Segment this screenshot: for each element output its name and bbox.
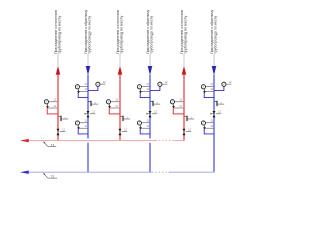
thermometer well TW21 on supply riser 2 <box>120 116 130 121</box>
return header pipe T2 dashed continuation <box>152 171 169 173</box>
supply flow arrow 3 (up) <box>182 66 187 75</box>
thermometer TI32 connection pipe <box>214 87 224 91</box>
manometer MN21 shelves <box>111 101 120 103</box>
return header arrow (left) <box>20 171 29 174</box>
supply connection note 2 <box>116 9 123 54</box>
supply header pipe T1 dashed continuation <box>156 140 175 142</box>
thermometer TI22 shelf <box>162 83 167 85</box>
manometer MN22 shelves <box>142 85 150 87</box>
valve V22 on return riser 2 <box>147 111 158 117</box>
svg-text:t1: t1 <box>190 116 192 119</box>
thermometer well TW22 on return riser 2 <box>150 101 160 106</box>
manometer MN23 shelves <box>142 122 150 124</box>
svg-text:t1: t1 <box>126 116 128 119</box>
return connection note 1 <box>84 9 91 53</box>
return header label T2 <box>44 173 58 179</box>
manometer MN32 on return riser 3 <box>201 85 206 93</box>
svg-text:t1: t1 <box>64 116 66 119</box>
manometer MN31 impulse pipe (red elbow) <box>173 108 184 114</box>
thermometer TI12 on return riser 1 <box>96 82 100 86</box>
supply header label T1 <box>44 141 57 147</box>
svg-text:трубопроводу по месту: трубопроводу по месту <box>87 15 91 53</box>
svg-text:трубопровод по месту: трубопровод по месту <box>57 15 61 53</box>
valve V11 on supply riser 1 <box>57 129 66 135</box>
return leader line 3 <box>213 54 215 66</box>
svg-text:t1: t1 <box>156 101 158 104</box>
thermometer TI12 shelf <box>100 83 105 85</box>
return leader line 2 <box>149 54 151 66</box>
return riser pipe T2-1 <box>87 75 89 139</box>
supply flow arrow 2 (up) <box>118 66 123 75</box>
manometer MN11 impulse pipe (red elbow) <box>47 108 58 114</box>
manometer MN21 on supply riser 2 <box>106 100 111 108</box>
manometer MN22 impulse pipe (blue elbow) <box>140 92 150 97</box>
svg-text:трубопроводу по месту: трубопроводу по месту <box>149 15 153 53</box>
svg-text:трубопровод по месту: трубопровод по месту <box>119 15 123 53</box>
manometer MN32 impulse pipe (blue elbow) <box>204 92 214 97</box>
thermometer well TW11 on supply riser 1 <box>58 116 68 121</box>
supply leader line 3 <box>183 54 185 66</box>
return flow arrow 1 (down) <box>86 66 91 75</box>
manometer MN12 impulse pipe (blue elbow) <box>78 92 88 97</box>
return leader line 1 <box>87 54 89 66</box>
manometer MN31 shelves <box>175 101 184 103</box>
return connection note 3 <box>210 9 217 53</box>
manometer MN12 on return riser 1 <box>75 85 80 93</box>
thermometer well TW12 on return riser 1 <box>88 101 98 106</box>
manometer MN13 impulse pipe (blue elbow) <box>78 129 88 134</box>
supply riser pipe T1-2 <box>119 74 121 141</box>
supply leader line 1 <box>57 54 59 66</box>
manometer MN31 on supply riser 3 <box>170 100 175 108</box>
svg-text:Т1: Т1 <box>51 143 55 147</box>
manometer MN11 on supply riser 1 <box>44 100 49 108</box>
manometer MN23 impulse pipe (blue elbow) <box>140 129 150 134</box>
thermometer TI12 connection pipe <box>88 87 98 91</box>
supply connection note 1 <box>54 9 61 54</box>
manometer MN22 on return riser 2 <box>137 85 142 93</box>
supply leader line 2 <box>119 54 121 66</box>
supply flow arrow 1 (up) <box>56 66 61 75</box>
valve V31 on supply riser 3 <box>183 129 192 135</box>
thermometer TI32 shelf <box>226 83 231 85</box>
thermometer TI22 connection pipe <box>150 87 160 91</box>
return flow arrow 2 (down) <box>148 66 153 75</box>
valve V12 on return riser 1 <box>85 111 96 117</box>
svg-text:t1: t1 <box>220 101 222 104</box>
return flow arrow 3 (down) <box>212 66 217 75</box>
manometer MN33 on return riser 3 <box>201 121 206 129</box>
manometer MN12 shelves <box>80 85 88 87</box>
manometer MN33 shelves <box>206 122 214 124</box>
manometer MN11 shelves <box>49 101 58 103</box>
valve V32 on return riser 3 <box>211 111 222 117</box>
manometer MN13 shelves <box>80 122 88 124</box>
thermometer TI22 on return riser 2 <box>158 82 162 86</box>
manometer MN21 impulse pipe (red elbow) <box>109 108 120 114</box>
svg-text:трубопровод по месту: трубопровод по месту <box>183 15 187 53</box>
manometer MN32 shelves <box>206 85 214 87</box>
supply riser pipe T1-3 <box>183 74 185 141</box>
supply header pipe T1 <box>29 140 156 142</box>
manometer MN13 on return riser 1 <box>75 121 80 129</box>
thermometer well TW31 on supply riser 3 <box>184 116 194 121</box>
supply header arrow (left) <box>20 139 29 142</box>
supply connection note 3 <box>180 9 187 54</box>
return connection note 2 <box>146 9 153 53</box>
return riser pipe T2-2 <box>149 75 151 139</box>
svg-text:Т2: Т2 <box>51 175 55 179</box>
valve V21 on supply riser 2 <box>119 129 128 135</box>
manometer MN33 impulse pipe (blue elbow) <box>204 129 214 134</box>
thermometer TI32 on return riser 3 <box>222 82 226 86</box>
svg-text:t1: t1 <box>94 101 96 104</box>
supply header pipe T1 end segment <box>174 140 185 142</box>
svg-text:трубопроводу по месту: трубопроводу по месту <box>213 15 217 53</box>
supply riser pipe T1-1 <box>57 74 59 141</box>
thermometer well TW32 on return riser 3 <box>214 101 224 106</box>
return riser pipe T2-3 <box>213 75 215 173</box>
manometer MN23 on return riser 2 <box>137 121 142 129</box>
return header pipe T2 <box>29 171 153 173</box>
return header pipe T2 end segment <box>169 171 215 173</box>
